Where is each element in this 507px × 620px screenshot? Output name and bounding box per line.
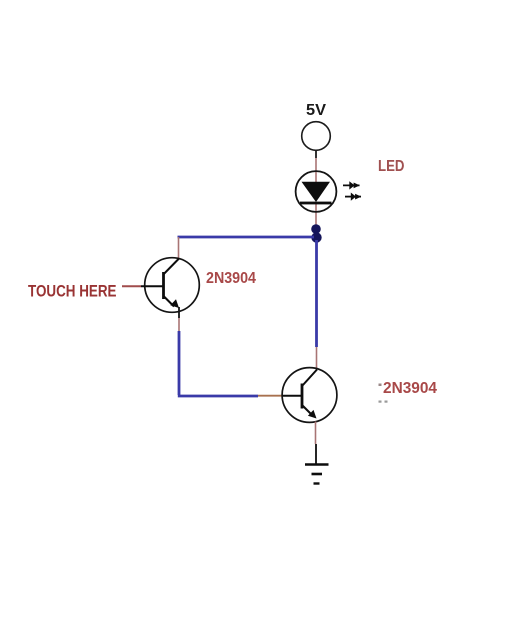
wire: black vertical to ground xyxy=(315,444,317,464)
wire: red horizontal into Q2 base xyxy=(258,395,282,397)
junction node (double dot) xyxy=(311,224,321,243)
LED D1 xyxy=(296,171,337,212)
wire: red touch wire xyxy=(122,285,141,287)
wire: red wire below LED to junction xyxy=(315,203,317,226)
wire: blue horizontal Q1 collector to junction xyxy=(178,236,315,239)
transistor Q2 2N3904 xyxy=(282,368,337,423)
wire: blue vertical junction down to Q2 collector xyxy=(315,240,318,347)
transistor Q1 2N3904 xyxy=(141,258,199,318)
LED emission arrow upper xyxy=(343,181,360,189)
ground xyxy=(305,465,329,484)
power supply circle 5V xyxy=(302,122,331,151)
LED emission arrow lower xyxy=(345,193,361,201)
wire: red vertical Q1 emitter xyxy=(178,318,180,331)
svg-text:2N3904: 2N3904 xyxy=(206,270,256,287)
wire: blue vertical Q1 emitter down xyxy=(178,331,181,395)
svg-text:LED: LED xyxy=(378,158,405,175)
wire: black stub below supply xyxy=(315,151,317,159)
svg-text:5V: 5V xyxy=(306,102,326,119)
wire: anode red wire into LED xyxy=(315,158,317,182)
svg-text:2N3904: 2N3904 xyxy=(383,380,437,397)
svg-text:TOUCH HERE: TOUCH HERE xyxy=(28,283,117,301)
wire: red vertical Q2 emitter xyxy=(315,422,317,445)
wire: red vertical Q2 collector xyxy=(316,347,318,370)
wire: blue horizontal to Q2 base xyxy=(178,395,258,398)
wire: red vertical Q1 collector xyxy=(178,237,180,259)
wire: black base lead Q2 xyxy=(282,395,301,397)
